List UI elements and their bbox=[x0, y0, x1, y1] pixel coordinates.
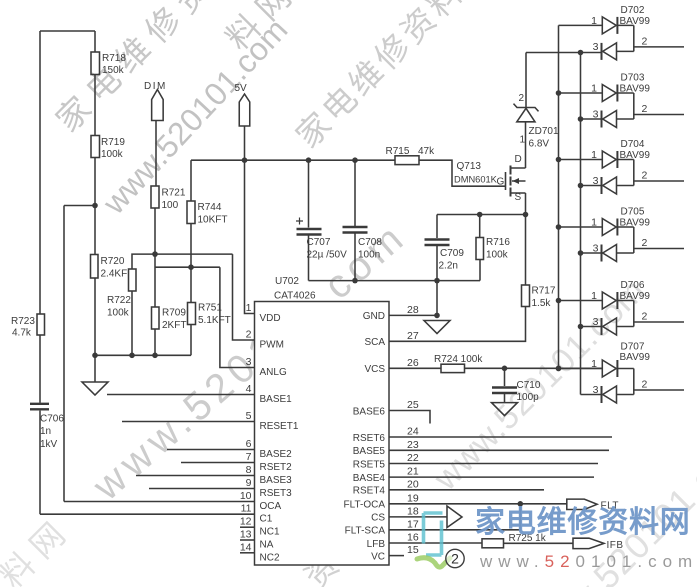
svg-text:R751: R751 bbox=[198, 303, 222, 314]
svg-text:www.520101.com: www.520101.com bbox=[479, 552, 697, 571]
resistor R725 bbox=[482, 539, 504, 548]
resistor R721 bbox=[151, 186, 159, 208]
resistor R709 bbox=[152, 307, 160, 329]
svg-text:ANLG: ANLG bbox=[260, 367, 287, 378]
svg-text:1: 1 bbox=[591, 83, 597, 95]
wire supply rail bbox=[191, 159, 395, 161]
wire R724 to diode D707 bbox=[465, 367, 603, 369]
wire pin 5 RESET1 bbox=[122, 421, 255, 423]
svg-text:3: 3 bbox=[593, 109, 599, 121]
svg-text:R722: R722 bbox=[107, 295, 131, 306]
wire C709 top bbox=[436, 215, 438, 239]
svg-text:NA: NA bbox=[260, 540, 274, 551]
wire left branch down bbox=[63, 206, 65, 502]
watermark green swoosh bbox=[417, 558, 450, 567]
svg-text:3: 3 bbox=[593, 175, 599, 187]
svg-text:5V: 5V bbox=[235, 83, 248, 94]
svg-text:VC: VC bbox=[371, 551, 385, 562]
wire R719 to node bbox=[94, 158, 96, 206]
svg-text:D: D bbox=[515, 154, 522, 165]
watermark logo icon bbox=[424, 513, 443, 555]
svg-text:6.8V: 6.8V bbox=[529, 139, 550, 150]
svg-text:3: 3 bbox=[593, 41, 599, 53]
net flag FLT bbox=[567, 499, 597, 509]
svg-text:FLT-OCA: FLT-OCA bbox=[344, 500, 386, 511]
resistor R716 bbox=[476, 238, 484, 260]
junction GND pin 28 bbox=[434, 313, 440, 319]
svg-text:R716: R716 bbox=[486, 237, 510, 248]
svg-text:D706: D706 bbox=[621, 280, 645, 291]
wire ANLG net down to pin 3 bbox=[220, 267, 255, 367]
wire source row bbox=[437, 214, 526, 216]
svg-text:G: G bbox=[497, 177, 505, 188]
svg-text:15: 15 bbox=[407, 544, 419, 556]
resistor R722 bbox=[129, 269, 137, 291]
svg-text:1: 1 bbox=[591, 217, 597, 229]
wire R716 top bbox=[479, 215, 481, 238]
svg-text:12: 12 bbox=[240, 516, 252, 528]
capacitor C707 polarized bbox=[297, 229, 322, 235]
zener diode ZD701 bbox=[514, 104, 539, 122]
svg-text:R721: R721 bbox=[162, 188, 186, 199]
svg-text:FLT-SCA: FLT-SCA bbox=[345, 526, 386, 537]
junction bus1 D703 bbox=[556, 90, 562, 96]
junction C708-gnd rail bbox=[352, 278, 358, 284]
svg-text:BASE6: BASE6 bbox=[353, 406, 386, 417]
svg-text:20: 20 bbox=[407, 478, 419, 490]
junction bus-R709 bbox=[152, 353, 158, 359]
svg-text:OCA: OCA bbox=[260, 501, 282, 512]
resistor R715 bbox=[395, 156, 419, 165]
svg-text:28: 28 bbox=[407, 304, 419, 316]
svg-text:2: 2 bbox=[246, 329, 252, 341]
capacitor C709 bbox=[425, 240, 450, 246]
svg-text:3: 3 bbox=[593, 384, 599, 396]
svg-text:BASE1: BASE1 bbox=[260, 394, 293, 405]
svg-text:1: 1 bbox=[591, 358, 597, 370]
svg-text:RSET5: RSET5 bbox=[353, 459, 386, 470]
diode pair D706 BAV99 bbox=[559, 280, 685, 335]
junction ANLG-R744 bbox=[188, 264, 194, 270]
wire R717 to SCA pin 27 bbox=[389, 307, 526, 342]
net flag DIM bbox=[152, 90, 164, 121]
svg-text:CAT4026: CAT4026 bbox=[274, 291, 316, 302]
resistor R724 bbox=[441, 364, 465, 372]
svg-text:2: 2 bbox=[642, 379, 648, 391]
junction VCS-C710 bbox=[502, 366, 508, 372]
junction 5V-rail bbox=[242, 157, 248, 163]
junction bus2 D705 bbox=[578, 250, 584, 256]
svg-text:D704: D704 bbox=[621, 139, 645, 150]
svg-text:C708: C708 bbox=[358, 237, 382, 248]
svg-text:R720: R720 bbox=[101, 256, 125, 267]
wire pin 25 BASE6 bbox=[389, 411, 430, 424]
transistor Q713 MOSFET bbox=[506, 166, 526, 197]
svg-text:BAV99: BAV99 bbox=[620, 150, 651, 161]
wire node to R720 bbox=[94, 206, 96, 255]
pin 13 stub bbox=[240, 539, 255, 541]
wire C707 top bbox=[308, 160, 310, 227]
wire left vertical to R723 bbox=[39, 31, 41, 314]
svg-text:S: S bbox=[515, 192, 522, 203]
capacitor C710 bbox=[492, 388, 517, 394]
wire source node to R717 bbox=[525, 215, 527, 286]
svg-text:C707: C707 bbox=[307, 237, 331, 248]
wire 5V down to rail bbox=[244, 126, 246, 160]
svg-text:100k: 100k bbox=[101, 149, 124, 160]
svg-text:C709: C709 bbox=[440, 248, 464, 259]
svg-text:RSET6: RSET6 bbox=[353, 433, 386, 444]
svg-text:1: 1 bbox=[591, 15, 597, 27]
svg-text:BAV99: BAV99 bbox=[620, 84, 651, 95]
wire R709 to bus bbox=[154, 329, 156, 355]
wire pin 24 RSET6 bbox=[389, 436, 612, 438]
wire to pin 10 OCA bbox=[64, 501, 255, 503]
wire pin 16 LFB to R725 bbox=[389, 542, 482, 544]
wire lower ground rail bbox=[309, 280, 481, 282]
svg-text:IFB: IFB bbox=[607, 540, 624, 551]
svg-text:D703: D703 bbox=[621, 73, 645, 84]
svg-text:26: 26 bbox=[407, 357, 419, 369]
svg-text:D707: D707 bbox=[621, 342, 645, 353]
pin 14 stub bbox=[240, 552, 255, 554]
bus line 1 bbox=[558, 25, 560, 368]
svg-text:BAV99: BAV99 bbox=[620, 291, 651, 302]
svg-text:4: 4 bbox=[246, 383, 252, 395]
net flag 5V bbox=[239, 94, 250, 126]
wire pin 15 VC stub bbox=[389, 555, 404, 557]
svg-text:1: 1 bbox=[520, 135, 526, 146]
svg-text:100k: 100k bbox=[486, 250, 509, 261]
svg-text:R724 100k: R724 100k bbox=[434, 354, 483, 365]
svg-text:C1: C1 bbox=[260, 514, 273, 525]
wire to pin 11 C1 bbox=[40, 513, 255, 515]
svg-text:13: 13 bbox=[240, 529, 252, 541]
wire R720 to bottom bus bbox=[94, 278, 96, 355]
svg-text:19: 19 bbox=[407, 492, 419, 504]
wire PWM node to R709 bbox=[154, 254, 156, 307]
wire gndrail to GND pin junction bbox=[436, 281, 438, 316]
wire ANLG net horizontal bbox=[155, 266, 220, 268]
svg-text:D705: D705 bbox=[621, 207, 645, 218]
ground stem left bbox=[94, 355, 96, 382]
resistor R718 bbox=[91, 52, 100, 75]
wire C706 down bbox=[39, 411, 41, 515]
junction bus2 top bbox=[578, 50, 584, 56]
svg-text:4.7k: 4.7k bbox=[12, 328, 32, 339]
svg-text:U702: U702 bbox=[275, 276, 299, 287]
wire R722 bottom bbox=[131, 291, 133, 355]
marker triangle CS bbox=[447, 506, 462, 528]
svg-text:BAV99: BAV99 bbox=[620, 218, 651, 229]
junction source row R716 bbox=[477, 212, 483, 218]
resistor R717 bbox=[522, 285, 530, 307]
svg-text:家电维修资料网: 家电维修资料网 bbox=[475, 506, 691, 539]
svg-text:5.1KFT: 5.1KFT bbox=[198, 315, 231, 326]
junction bus-R720 bbox=[92, 353, 98, 359]
svg-text:2: 2 bbox=[519, 93, 525, 104]
svg-text:2: 2 bbox=[642, 103, 648, 115]
ground symbol C710 bbox=[492, 403, 518, 416]
svg-text:6: 6 bbox=[246, 438, 252, 450]
svg-text:1: 1 bbox=[591, 149, 597, 161]
svg-text:Q713: Q713 bbox=[457, 161, 482, 172]
diode pair D707 BAV99 bbox=[559, 342, 685, 404]
svg-text:DMN601K: DMN601K bbox=[454, 175, 498, 185]
diode pair D704 BAV99 bbox=[559, 139, 685, 194]
capacitor C708 bbox=[343, 227, 368, 233]
watermark circled 2 bbox=[446, 549, 464, 567]
junction FLT net bbox=[518, 501, 524, 507]
svg-text:1kV: 1kV bbox=[40, 439, 58, 450]
svg-text:R719: R719 bbox=[101, 137, 125, 148]
wire node to left branch bbox=[64, 205, 95, 207]
svg-text:2: 2 bbox=[642, 170, 648, 182]
svg-text:C706: C706 bbox=[40, 414, 64, 425]
wire C708 top bbox=[354, 160, 356, 226]
svg-text:ZD701: ZD701 bbox=[529, 126, 559, 137]
junction bus2 D704 bbox=[578, 183, 584, 189]
capacitor C706 bbox=[30, 404, 49, 410]
svg-text:RSET2: RSET2 bbox=[260, 462, 293, 473]
junction gndrail-C709 bbox=[434, 278, 440, 284]
svg-text:8: 8 bbox=[246, 464, 252, 476]
svg-text:VDD: VDD bbox=[260, 313, 281, 324]
junction rail-C707 bbox=[306, 157, 312, 163]
wire source down bbox=[525, 193, 527, 215]
wire zener to D702 pin3 bbox=[526, 52, 601, 54]
wire pin 18 CS bbox=[389, 516, 447, 518]
svg-text:RSET3: RSET3 bbox=[260, 488, 293, 499]
svg-text:2: 2 bbox=[451, 551, 459, 567]
svg-text:3: 3 bbox=[246, 356, 252, 368]
wire R716 bottom bbox=[479, 260, 481, 281]
svg-text:SCA: SCA bbox=[364, 337, 385, 348]
diode pair D705 BAV99 bbox=[559, 207, 685, 262]
ground symbol GND pin bbox=[424, 321, 450, 334]
wire pin 8 BASE3 bbox=[136, 475, 255, 477]
ground symbol left bbox=[82, 382, 108, 395]
svg-text:21: 21 bbox=[407, 466, 419, 478]
svg-text:BASE2: BASE2 bbox=[260, 449, 293, 460]
junction node left divider bbox=[92, 203, 98, 209]
svg-text:14: 14 bbox=[240, 541, 252, 553]
junction bus2 D706 bbox=[578, 324, 584, 330]
svg-text:10KFT: 10KFT bbox=[198, 215, 228, 226]
svg-text:2: 2 bbox=[642, 311, 648, 323]
junction VCS-bus1 bbox=[556, 366, 562, 372]
bus line 2 bbox=[580, 53, 582, 395]
svg-text:RSET4: RSET4 bbox=[353, 486, 386, 497]
svg-text:LFB: LFB bbox=[367, 539, 386, 550]
wire R718 top bbox=[94, 31, 96, 52]
svg-text:R718: R718 bbox=[102, 53, 126, 64]
svg-text:100p: 100p bbox=[517, 392, 540, 403]
wire R718-R719 bbox=[94, 75, 96, 136]
wire pin 7 RSET2 bbox=[181, 462, 255, 464]
wire R723 to C706 bbox=[39, 335, 41, 403]
svg-text:家电维修资料网: 家电维修资料网 bbox=[289, 0, 498, 155]
svg-text:9: 9 bbox=[246, 477, 252, 489]
resistor R744 bbox=[187, 201, 195, 224]
wire DIM to R721 bbox=[155, 121, 157, 187]
wire pin 28 GND bbox=[389, 314, 437, 316]
junction bus1 D706 bbox=[556, 298, 562, 304]
svg-text:1: 1 bbox=[246, 302, 252, 314]
junction PWM-R709 vertical bbox=[152, 251, 158, 257]
svg-text:10: 10 bbox=[240, 490, 252, 502]
svg-text:5: 5 bbox=[246, 410, 252, 422]
svg-text:22µ /50V: 22µ /50V bbox=[307, 250, 348, 261]
svg-text:22: 22 bbox=[407, 452, 419, 464]
op-amp U702 CAT4026 IC body bbox=[255, 302, 390, 566]
wire drain up to zener bbox=[525, 122, 527, 168]
svg-text:R723: R723 bbox=[11, 316, 35, 327]
svg-text:PWM: PWM bbox=[260, 340, 284, 351]
wire C709 bottom bbox=[436, 246, 438, 281]
svg-text:NC2: NC2 bbox=[260, 552, 280, 563]
resistor R719 bbox=[91, 136, 100, 158]
svg-text:VCS: VCS bbox=[364, 364, 385, 375]
wire R722 top to PWM net bbox=[132, 254, 233, 269]
wire C710 bottom bbox=[504, 394, 506, 403]
net flag IFB bbox=[573, 538, 604, 548]
svg-text:100: 100 bbox=[162, 200, 179, 211]
svg-text:BAV99: BAV99 bbox=[620, 16, 651, 27]
svg-text:7: 7 bbox=[246, 451, 252, 463]
resistor R723 bbox=[37, 314, 45, 335]
wire pin 19 FLT-OCA bbox=[389, 503, 567, 505]
wire pin 23 BASE5 bbox=[389, 449, 609, 451]
wire C710 top bbox=[504, 368, 506, 386]
svg-text:CS: CS bbox=[371, 513, 385, 524]
wire top-left loop bbox=[40, 30, 95, 32]
wire 5V rail to pin 1 VDD bbox=[245, 160, 255, 313]
wire pin 20 RSET4 bbox=[389, 489, 544, 491]
svg-text:C710: C710 bbox=[517, 380, 541, 391]
svg-text:1n: 1n bbox=[40, 426, 51, 437]
svg-text:RESET1: RESET1 bbox=[260, 421, 299, 432]
wire bottom bus bbox=[95, 354, 191, 356]
diode pair D703 BAV99 bbox=[559, 73, 685, 128]
wire R751 to bus bbox=[190, 325, 192, 356]
junction bus2 D703 bbox=[578, 116, 584, 122]
svg-text:23: 23 bbox=[407, 439, 419, 451]
wire rail to R744 top bbox=[190, 160, 192, 201]
wire pin 21 BASE4 bbox=[389, 476, 594, 478]
wire C707 bottom bbox=[308, 236, 310, 281]
svg-text:BAV99: BAV99 bbox=[620, 352, 651, 363]
svg-text:3: 3 bbox=[593, 243, 599, 255]
svg-text:150k: 150k bbox=[102, 65, 125, 76]
svg-text:24: 24 bbox=[407, 426, 419, 438]
wire R715 to gate corner bbox=[419, 160, 506, 186]
svg-text:3: 3 bbox=[593, 316, 599, 328]
svg-text:NC1: NC1 bbox=[260, 527, 280, 538]
junction rail-C708 bbox=[352, 157, 358, 163]
svg-text:1: 1 bbox=[591, 290, 597, 302]
wire pin 26 VCS to R724 bbox=[389, 367, 441, 369]
junction bus1 D705 bbox=[556, 224, 562, 230]
svg-text:R709: R709 bbox=[162, 308, 186, 319]
svg-text:17: 17 bbox=[407, 518, 419, 530]
svg-text:2: 2 bbox=[642, 35, 648, 47]
svg-text:47k: 47k bbox=[418, 146, 435, 157]
svg-text:2KFT: 2KFT bbox=[162, 320, 186, 331]
svg-text:25: 25 bbox=[407, 399, 419, 411]
svg-text:100k: 100k bbox=[107, 308, 130, 319]
wire R744 to ANLG node bbox=[190, 224, 192, 268]
svg-text:BASE4: BASE4 bbox=[353, 473, 386, 484]
svg-text:R717: R717 bbox=[532, 286, 556, 297]
junction bus-R722 bbox=[129, 353, 135, 359]
svg-text:D702: D702 bbox=[621, 5, 645, 16]
wire pin 17 FLT-SCA bbox=[389, 504, 520, 530]
wire zener cathode up bbox=[525, 53, 527, 108]
wire pin 22 RSET5 bbox=[389, 463, 598, 465]
svg-text:100n: 100n bbox=[358, 250, 380, 261]
wire pin 9 RSET3 bbox=[149, 488, 255, 490]
resistor R751 bbox=[188, 303, 196, 325]
svg-text:2.2n: 2.2n bbox=[439, 261, 458, 272]
wire ANLG node to R751 bbox=[190, 267, 192, 302]
wire R721 to PWM node bbox=[154, 208, 156, 254]
svg-text:GND: GND bbox=[363, 311, 385, 322]
wire pin 6 BASE2 bbox=[167, 449, 255, 451]
svg-text:BASE3: BASE3 bbox=[260, 475, 293, 486]
wire R725 to IFB flag bbox=[504, 542, 574, 544]
svg-text:料网: 料网 bbox=[0, 509, 78, 587]
wire PWM net down to pin 2 bbox=[233, 254, 255, 340]
junction bus1 D704 bbox=[556, 157, 562, 163]
svg-text:DIM: DIM bbox=[144, 81, 167, 92]
wire pin 4 BASE1 bbox=[107, 394, 255, 396]
svg-text:BASE5: BASE5 bbox=[353, 446, 386, 457]
pin 12 stub bbox=[240, 526, 255, 528]
svg-text:11: 11 bbox=[241, 503, 252, 515]
svg-text:2: 2 bbox=[642, 237, 648, 249]
svg-text:R744: R744 bbox=[198, 202, 222, 213]
svg-text:16: 16 bbox=[407, 532, 419, 544]
svg-text:2.4KF: 2.4KF bbox=[101, 269, 128, 280]
wire C708 bottom bbox=[354, 234, 356, 281]
junction source row S bbox=[523, 212, 529, 218]
resistor R720 bbox=[91, 255, 99, 279]
svg-text:1.5k: 1.5k bbox=[532, 298, 552, 309]
junction bus1 D707 bbox=[556, 366, 562, 372]
svg-text:18: 18 bbox=[407, 505, 419, 517]
diode pair D702 BAV99 bbox=[559, 5, 685, 60]
svg-text:27: 27 bbox=[407, 330, 419, 342]
